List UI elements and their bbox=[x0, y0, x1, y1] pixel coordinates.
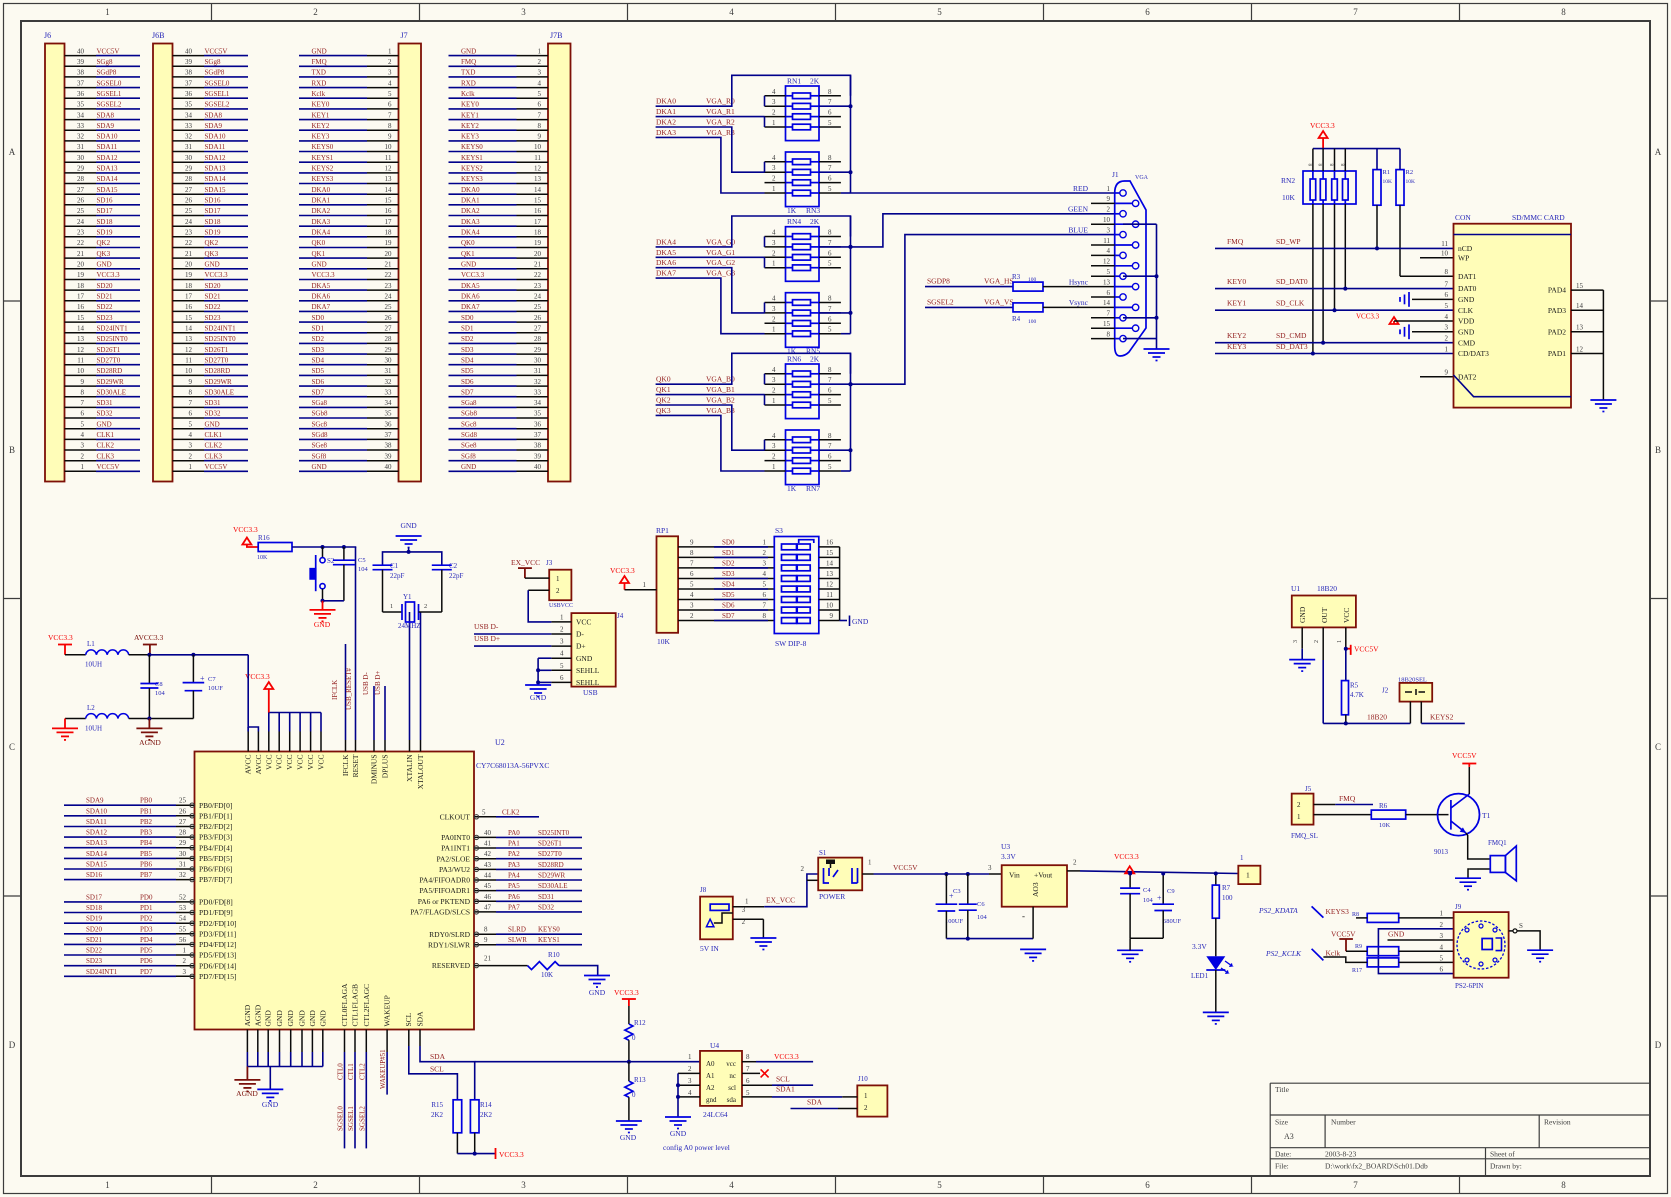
svg-text:D: D bbox=[9, 1040, 16, 1050]
svg-text:GND: GND bbox=[97, 420, 112, 428]
svg-text:CTL1: CTL1 bbox=[347, 1063, 355, 1080]
U4 pin 5 SDA1 bbox=[742, 1085, 842, 1098]
svg-text:11: 11 bbox=[1441, 240, 1448, 248]
svg-text:6: 6 bbox=[746, 1077, 750, 1085]
svg-text:17: 17 bbox=[77, 293, 85, 301]
svg-text:QK1: QK1 bbox=[461, 250, 475, 258]
svg-text:9: 9 bbox=[189, 378, 193, 386]
svg-text:SD17: SD17 bbox=[205, 207, 221, 215]
svg-text:4: 4 bbox=[763, 570, 767, 578]
svg-text:3: 3 bbox=[772, 98, 776, 106]
svg-text:TXD: TXD bbox=[312, 69, 326, 77]
svg-text:28: 28 bbox=[77, 175, 85, 183]
U2 left port B pins bbox=[64, 797, 232, 885]
svg-text:10UH: 10UH bbox=[85, 725, 102, 733]
svg-text:PA1INT1: PA1INT1 bbox=[441, 844, 470, 853]
svg-text:QK0: QK0 bbox=[312, 239, 326, 247]
svg-text:8: 8 bbox=[828, 88, 832, 96]
wire USB shield to ground bbox=[536, 658, 551, 685]
svg-text:14: 14 bbox=[77, 325, 85, 333]
svg-text:40: 40 bbox=[534, 463, 542, 471]
svg-text:C8: C8 bbox=[155, 681, 163, 688]
wire tie RN3 pins 4-3 bbox=[764, 162, 766, 172]
svg-text:Y1: Y1 bbox=[403, 593, 412, 601]
svg-text:33: 33 bbox=[185, 122, 193, 130]
svg-text:R17: R17 bbox=[1352, 968, 1362, 974]
svg-text:SD_CLK: SD_CLK bbox=[1276, 299, 1305, 308]
svg-text:gnd: gnd bbox=[706, 1096, 717, 1104]
svg-text:7: 7 bbox=[388, 111, 392, 119]
svg-text:CLK2: CLK2 bbox=[205, 442, 223, 450]
svg-text:3: 3 bbox=[1293, 640, 1299, 643]
svg-text:8: 8 bbox=[1107, 330, 1111, 338]
svg-text:VGA_B3: VGA_B3 bbox=[706, 406, 735, 415]
svg-text:8: 8 bbox=[828, 229, 832, 237]
svg-text:VCC3.3: VCC3.3 bbox=[312, 271, 336, 279]
U2 IFCLK RESET pins bbox=[341, 740, 360, 777]
svg-text:SGc8: SGc8 bbox=[312, 420, 328, 428]
svg-text:SGa8: SGa8 bbox=[461, 399, 477, 407]
svg-text:SD30ALE: SD30ALE bbox=[97, 388, 127, 396]
svg-text:VGA_VS: VGA_VS bbox=[984, 297, 1014, 306]
svg-text:DKA3: DKA3 bbox=[461, 218, 480, 226]
svg-text:8: 8 bbox=[189, 388, 193, 396]
svg-text:SDA15: SDA15 bbox=[86, 861, 108, 869]
svg-text:PB3: PB3 bbox=[140, 829, 153, 837]
svg-text:SD29WR: SD29WR bbox=[538, 872, 566, 880]
svg-text:PD6/FD[14]: PD6/FD[14] bbox=[199, 961, 237, 970]
svg-text:GND: GND bbox=[318, 1010, 327, 1027]
svg-text:PD0/FD[8]: PD0/FD[8] bbox=[199, 898, 233, 907]
svg-text:sda: sda bbox=[727, 1096, 737, 1104]
svg-text:SGb8: SGb8 bbox=[312, 410, 328, 418]
svg-text:AGND: AGND bbox=[253, 1004, 262, 1026]
svg-text:KEY1: KEY1 bbox=[312, 111, 330, 119]
svg-text:S: S bbox=[1519, 922, 1523, 930]
svg-text:14: 14 bbox=[534, 186, 542, 194]
svg-text:D+: D+ bbox=[576, 642, 586, 651]
svg-text:SD23: SD23 bbox=[86, 957, 102, 965]
svg-text:IFCLK: IFCLK bbox=[331, 680, 339, 700]
svg-text:26: 26 bbox=[179, 807, 187, 815]
wire J3 pin1 to EX_VCC bbox=[525, 577, 549, 579]
svg-text:5V IN: 5V IN bbox=[700, 944, 719, 953]
wire tie RN1 pins 4-3 bbox=[764, 96, 766, 106]
resistor network RN4 bbox=[786, 217, 820, 281]
svg-text:SD19: SD19 bbox=[86, 915, 102, 923]
resistor R8 bbox=[1352, 912, 1399, 922]
svg-text:22: 22 bbox=[385, 271, 393, 279]
svg-text:GND: GND bbox=[264, 1010, 273, 1027]
svg-text:Number: Number bbox=[1331, 1118, 1356, 1127]
svg-text:6: 6 bbox=[1145, 7, 1150, 17]
U4 right pin 8 VCC3.3 bbox=[742, 1052, 813, 1062]
svg-text:DKA5: DKA5 bbox=[461, 282, 480, 290]
svg-text:DAT0: DAT0 bbox=[1458, 284, 1477, 293]
svg-text:SLWR: SLWR bbox=[508, 936, 527, 944]
svg-text:16: 16 bbox=[77, 303, 85, 311]
wire SDA to R14 bbox=[420, 1046, 475, 1100]
wire VCC5V rail bbox=[874, 873, 990, 875]
svg-text:C5: C5 bbox=[358, 557, 366, 564]
resistor R3 bbox=[1012, 273, 1043, 291]
svg-text:SGSEL1: SGSEL1 bbox=[97, 90, 122, 98]
svg-text:4: 4 bbox=[690, 591, 694, 599]
wire DKA7 down to RN5 pin 1 bbox=[656, 278, 765, 334]
svg-text:4: 4 bbox=[772, 154, 776, 162]
svg-text:36: 36 bbox=[534, 420, 542, 428]
svg-text:20: 20 bbox=[385, 250, 393, 258]
svg-text:3: 3 bbox=[772, 239, 776, 247]
connector J2 18B20SEL bbox=[1382, 677, 1432, 702]
wire tie RN6 pins 2-1 bbox=[764, 395, 766, 405]
svg-text:8: 8 bbox=[828, 154, 832, 162]
svg-text:PB5: PB5 bbox=[140, 850, 153, 858]
svg-text:6: 6 bbox=[690, 570, 694, 578]
svg-text:17: 17 bbox=[534, 218, 542, 226]
svg-text:7: 7 bbox=[828, 376, 832, 384]
svg-text:31: 31 bbox=[179, 861, 187, 869]
wire DKA5 to RN4 pin 2 bbox=[656, 256, 765, 258]
resistor R4 bbox=[1012, 303, 1043, 325]
svg-text:SGdP8: SGdP8 bbox=[97, 69, 117, 77]
wire R10 to ground bbox=[559, 966, 598, 976]
svg-text:13: 13 bbox=[534, 175, 542, 183]
svg-text:29: 29 bbox=[77, 165, 85, 173]
svg-text:10K: 10K bbox=[1379, 822, 1391, 829]
svg-text:R16: R16 bbox=[258, 534, 270, 542]
wire VCC pullup bus bbox=[1313, 148, 1400, 150]
svg-text:1: 1 bbox=[772, 185, 776, 193]
svg-text:100: 100 bbox=[1028, 319, 1037, 325]
svg-text:2: 2 bbox=[538, 58, 542, 66]
svg-text:14: 14 bbox=[1103, 299, 1111, 307]
svg-text:10UF: 10UF bbox=[208, 685, 223, 692]
connector J4 USB bbox=[571, 612, 623, 697]
svg-text:RDY0/SLRD: RDY0/SLRD bbox=[429, 930, 470, 939]
svg-text:104: 104 bbox=[358, 566, 369, 573]
wire card pads ground bus bbox=[1602, 290, 1604, 400]
svg-text:2: 2 bbox=[772, 175, 776, 183]
net label PS2_KDATA bbox=[1258, 906, 1323, 918]
svg-text:29: 29 bbox=[385, 346, 393, 354]
svg-text:2: 2 bbox=[772, 315, 776, 323]
svg-text:SDA12: SDA12 bbox=[97, 154, 119, 162]
svg-text:J5: J5 bbox=[1305, 785, 1312, 793]
wire tie RN4 pins 2-1 bbox=[764, 257, 766, 267]
svg-text:32: 32 bbox=[179, 871, 187, 879]
svg-text:R8: R8 bbox=[1352, 912, 1359, 918]
transistor T1 9013 bbox=[1434, 794, 1491, 856]
svg-text:10UH: 10UH bbox=[85, 661, 102, 669]
svg-text:26: 26 bbox=[534, 314, 542, 322]
svg-text:SD30ALE: SD30ALE bbox=[538, 882, 568, 890]
svg-text:1: 1 bbox=[772, 463, 776, 471]
resistor R17 bbox=[1323, 957, 1453, 974]
svg-text:AGND: AGND bbox=[236, 1089, 258, 1098]
svg-text:27: 27 bbox=[185, 186, 193, 194]
wire VCC to R5 bbox=[1345, 649, 1347, 681]
svg-text:15: 15 bbox=[826, 549, 834, 557]
svg-text:10K: 10K bbox=[1406, 179, 1416, 185]
inductor L1 bbox=[65, 640, 149, 669]
power VCC5V at T1 bbox=[1452, 751, 1477, 767]
svg-text:SD31: SD31 bbox=[205, 399, 221, 407]
svg-text:CLK: CLK bbox=[1458, 306, 1474, 315]
svg-text:42: 42 bbox=[484, 850, 492, 858]
svg-text:2: 2 bbox=[313, 7, 318, 17]
svg-text:VGA_B1: VGA_B1 bbox=[706, 385, 735, 394]
svg-text:VCC5V: VCC5V bbox=[97, 463, 120, 471]
svg-text:5: 5 bbox=[560, 662, 564, 670]
svg-text:12: 12 bbox=[826, 581, 834, 589]
svg-text:SD22: SD22 bbox=[205, 303, 221, 311]
svg-text:12: 12 bbox=[534, 165, 542, 173]
wire RESET vertical bbox=[355, 546, 357, 548]
svg-text:PA4: PA4 bbox=[508, 872, 520, 880]
svg-text:USB_RESET#: USB_RESET# bbox=[345, 667, 353, 710]
svg-text:36: 36 bbox=[185, 90, 193, 98]
ground R10 bbox=[584, 976, 610, 998]
svg-text:4: 4 bbox=[189, 431, 193, 439]
connector CON SD/MMC CARD bbox=[1454, 213, 1572, 408]
svg-text:SGe8: SGe8 bbox=[312, 442, 328, 450]
svg-text:23: 23 bbox=[534, 282, 542, 290]
svg-text:SD0: SD0 bbox=[722, 538, 735, 546]
svg-text:PD7/FD[15]: PD7/FD[15] bbox=[199, 972, 237, 981]
svg-text:30: 30 bbox=[179, 850, 187, 858]
svg-text:Sheet of: Sheet of bbox=[1490, 1150, 1515, 1159]
svg-text:AVCC: AVCC bbox=[244, 755, 253, 775]
wire to U3 Vin bbox=[989, 873, 1002, 875]
svg-text:1: 1 bbox=[643, 581, 647, 589]
wire tie RN5 pins 4-3 bbox=[764, 303, 766, 313]
svg-text:1: 1 bbox=[745, 898, 749, 906]
resistor R15 bbox=[431, 1100, 462, 1133]
svg-text:39: 39 bbox=[534, 452, 542, 460]
svg-text:Vin: Vin bbox=[1009, 871, 1020, 880]
svg-text:VCC3.3: VCC3.3 bbox=[461, 271, 485, 279]
power VCC3.3 at card VDD bbox=[1356, 313, 1454, 325]
wire SD_DAT3 bbox=[1215, 353, 1454, 355]
ground card pin3 bbox=[1400, 324, 1454, 339]
svg-text:PA3/WU2: PA3/WU2 bbox=[439, 865, 470, 874]
svg-text:SD4: SD4 bbox=[722, 581, 735, 589]
svg-text:2: 2 bbox=[81, 452, 85, 460]
svg-text:5: 5 bbox=[828, 119, 832, 127]
svg-text:2: 2 bbox=[688, 1065, 692, 1073]
svg-text:46: 46 bbox=[484, 893, 492, 901]
connector 1-pin bbox=[1238, 854, 1260, 884]
svg-text:SDA8: SDA8 bbox=[205, 111, 223, 119]
svg-text:34: 34 bbox=[185, 111, 193, 119]
svg-text:9: 9 bbox=[1445, 369, 1449, 377]
svg-text:FMQ_SL: FMQ_SL bbox=[1291, 832, 1318, 840]
svg-text:7: 7 bbox=[1107, 310, 1111, 318]
svg-text:10K: 10K bbox=[541, 971, 553, 979]
svg-text:4: 4 bbox=[388, 79, 392, 87]
svg-text:100: 100 bbox=[1222, 894, 1233, 902]
svg-text:2: 2 bbox=[772, 387, 776, 395]
ground R13 bbox=[616, 1121, 642, 1142]
svg-text:RESERVED: RESERVED bbox=[432, 961, 471, 970]
svg-text:Size: Size bbox=[1275, 1118, 1289, 1127]
svg-text:SD3: SD3 bbox=[722, 570, 735, 578]
svg-text:1: 1 bbox=[560, 613, 564, 621]
svg-text:SEHLL: SEHLL bbox=[576, 666, 600, 675]
svg-text:QK2: QK2 bbox=[205, 239, 219, 247]
svg-text:1: 1 bbox=[868, 859, 872, 867]
svg-text:VCC: VCC bbox=[317, 755, 326, 770]
svg-text:6: 6 bbox=[828, 387, 832, 395]
svg-text:KEY0: KEY0 bbox=[1227, 277, 1246, 286]
svg-text:KEYS1: KEYS1 bbox=[538, 936, 560, 944]
svg-text:24LC64: 24LC64 bbox=[703, 1110, 728, 1119]
svg-text:3: 3 bbox=[688, 1077, 692, 1085]
regulator U3 3.3V bbox=[1001, 842, 1067, 939]
svg-text:FMQ: FMQ bbox=[312, 58, 327, 66]
svg-text:GND: GND bbox=[461, 47, 476, 55]
svg-text:25: 25 bbox=[534, 303, 542, 311]
svg-text:6: 6 bbox=[1145, 1180, 1150, 1190]
svg-text:DKA6: DKA6 bbox=[461, 293, 480, 301]
svg-text:6: 6 bbox=[763, 591, 767, 599]
connector J6 pins and wires bbox=[65, 47, 141, 471]
svg-text:9: 9 bbox=[81, 378, 85, 386]
svg-text:2: 2 bbox=[772, 453, 776, 461]
svg-text:SD1: SD1 bbox=[312, 325, 325, 333]
svg-text:12: 12 bbox=[385, 165, 393, 173]
svg-text:DKA1: DKA1 bbox=[656, 107, 676, 116]
svg-text:SGSEL1: SGSEL1 bbox=[205, 90, 230, 98]
svg-text:RXD: RXD bbox=[312, 79, 327, 87]
svg-text:27: 27 bbox=[385, 325, 393, 333]
svg-text:QK1: QK1 bbox=[312, 250, 326, 258]
svg-text:RESET: RESET bbox=[351, 754, 360, 777]
svg-text:PB7: PB7 bbox=[140, 871, 153, 879]
svg-text:C6: C6 bbox=[977, 901, 985, 908]
svg-text:22pF: 22pF bbox=[390, 572, 405, 580]
U4 pin 7 no connect bbox=[742, 1065, 769, 1077]
svg-text:GND: GND bbox=[576, 654, 593, 663]
svg-text:C9: C9 bbox=[1167, 888, 1175, 895]
net label PS2_KCLK bbox=[1265, 949, 1323, 961]
ground LED1 bbox=[1203, 1011, 1229, 1013]
svg-text:SD4: SD4 bbox=[461, 356, 474, 364]
svg-text:A3: A3 bbox=[1284, 1132, 1294, 1141]
svg-text:KEYS3: KEYS3 bbox=[461, 175, 483, 183]
svg-text:CTL2FLAGC: CTL2FLAGC bbox=[362, 984, 371, 1027]
card WP stub bbox=[1420, 257, 1454, 259]
wire RESET to reset circuit bbox=[355, 547, 357, 740]
svg-text:40: 40 bbox=[185, 47, 193, 55]
svg-text:SD27T0: SD27T0 bbox=[205, 356, 229, 364]
svg-text:2: 2 bbox=[1314, 640, 1320, 643]
wire GND to J9 pin3 bbox=[1388, 939, 1454, 941]
svg-text:39: 39 bbox=[385, 452, 393, 460]
svg-text:config A0 power level: config A0 power level bbox=[663, 1143, 730, 1152]
svg-text:J6: J6 bbox=[44, 31, 51, 40]
svg-text:PAD3: PAD3 bbox=[1548, 306, 1566, 315]
svg-text:1: 1 bbox=[688, 1053, 692, 1061]
svg-text:4.7K: 4.7K bbox=[1350, 691, 1364, 699]
svg-text:R6: R6 bbox=[1379, 802, 1388, 810]
svg-text:SGd8: SGd8 bbox=[461, 431, 477, 439]
wire VCC bus bbox=[269, 712, 321, 714]
svg-text:KEY3: KEY3 bbox=[1227, 342, 1246, 351]
svg-text:3: 3 bbox=[772, 442, 776, 450]
svg-text:GND: GND bbox=[205, 261, 220, 269]
U2 CTL pins bbox=[340, 983, 371, 1148]
svg-text:25: 25 bbox=[185, 207, 193, 215]
svg-text:PD3: PD3 bbox=[140, 925, 153, 933]
svg-text:SD3: SD3 bbox=[461, 346, 474, 354]
svg-text:KEYS3: KEYS3 bbox=[1326, 907, 1350, 916]
svg-text:AGND: AGND bbox=[139, 738, 161, 747]
svg-text:AVCC: AVCC bbox=[254, 755, 263, 775]
svg-text:2: 2 bbox=[801, 865, 805, 873]
svg-text:DKA4: DKA4 bbox=[656, 237, 676, 246]
svg-text:J7B: J7B bbox=[550, 31, 562, 40]
J8 pins 2,3 to ground bbox=[733, 906, 764, 938]
capacitor C4 104 bbox=[1120, 874, 1153, 939]
svg-text:21: 21 bbox=[185, 250, 193, 258]
svg-text:54: 54 bbox=[179, 915, 187, 923]
svg-text:SD18: SD18 bbox=[97, 218, 113, 226]
svg-text:VCC3.3: VCC3.3 bbox=[1356, 313, 1380, 321]
svg-text:44: 44 bbox=[484, 872, 492, 880]
svg-text:VCC3.3: VCC3.3 bbox=[614, 988, 639, 997]
svg-text:3: 3 bbox=[189, 442, 193, 450]
svg-text:31: 31 bbox=[534, 367, 542, 375]
svg-text:SDA15: SDA15 bbox=[97, 186, 119, 194]
svg-text:Title: Title bbox=[1275, 1085, 1290, 1094]
svg-text:19: 19 bbox=[385, 239, 393, 247]
svg-text:VCC3.3: VCC3.3 bbox=[1310, 121, 1335, 130]
svg-text:4: 4 bbox=[729, 1180, 734, 1190]
svg-text:1: 1 bbox=[556, 575, 560, 583]
svg-text:SDA9: SDA9 bbox=[97, 122, 115, 130]
S1 pin 1 to VCC5V bbox=[862, 859, 873, 875]
capacitor C1 22pF bbox=[373, 562, 405, 612]
svg-text:12: 12 bbox=[1103, 258, 1111, 266]
svg-text:SDA13: SDA13 bbox=[205, 165, 227, 173]
svg-text:VCC3.3: VCC3.3 bbox=[774, 1052, 799, 1061]
svg-text:PB5/FD[5]: PB5/FD[5] bbox=[199, 854, 232, 863]
J9 pin numbers bbox=[1440, 910, 1444, 974]
svg-text:5: 5 bbox=[828, 326, 832, 334]
net labels SGSEL0 SGSEL1 SGSEL2 bbox=[337, 1106, 367, 1131]
svg-text:24MHZ: 24MHZ bbox=[398, 622, 421, 630]
svg-text:PB0: PB0 bbox=[140, 797, 153, 805]
svg-text:CLK3: CLK3 bbox=[97, 452, 115, 460]
svg-text:27: 27 bbox=[179, 818, 187, 826]
svg-text:A2: A2 bbox=[706, 1084, 715, 1092]
J2 pin wires bbox=[1410, 702, 1464, 724]
svg-text:21: 21 bbox=[534, 261, 542, 269]
svg-text:PAD4: PAD4 bbox=[1548, 286, 1566, 295]
svg-text:SD16: SD16 bbox=[86, 871, 102, 879]
resistor network RN7 pin stubs bbox=[765, 432, 841, 471]
svg-text:28: 28 bbox=[385, 335, 393, 343]
svg-text:SD32: SD32 bbox=[538, 903, 554, 911]
svg-text:32: 32 bbox=[385, 378, 393, 386]
svg-text:+: + bbox=[1157, 894, 1162, 903]
svg-text:J9: J9 bbox=[1455, 903, 1462, 911]
wire GREEN video to J1 bbox=[851, 214, 1115, 247]
svg-text:32: 32 bbox=[185, 133, 193, 141]
svg-text:PA1: PA1 bbox=[508, 840, 520, 848]
